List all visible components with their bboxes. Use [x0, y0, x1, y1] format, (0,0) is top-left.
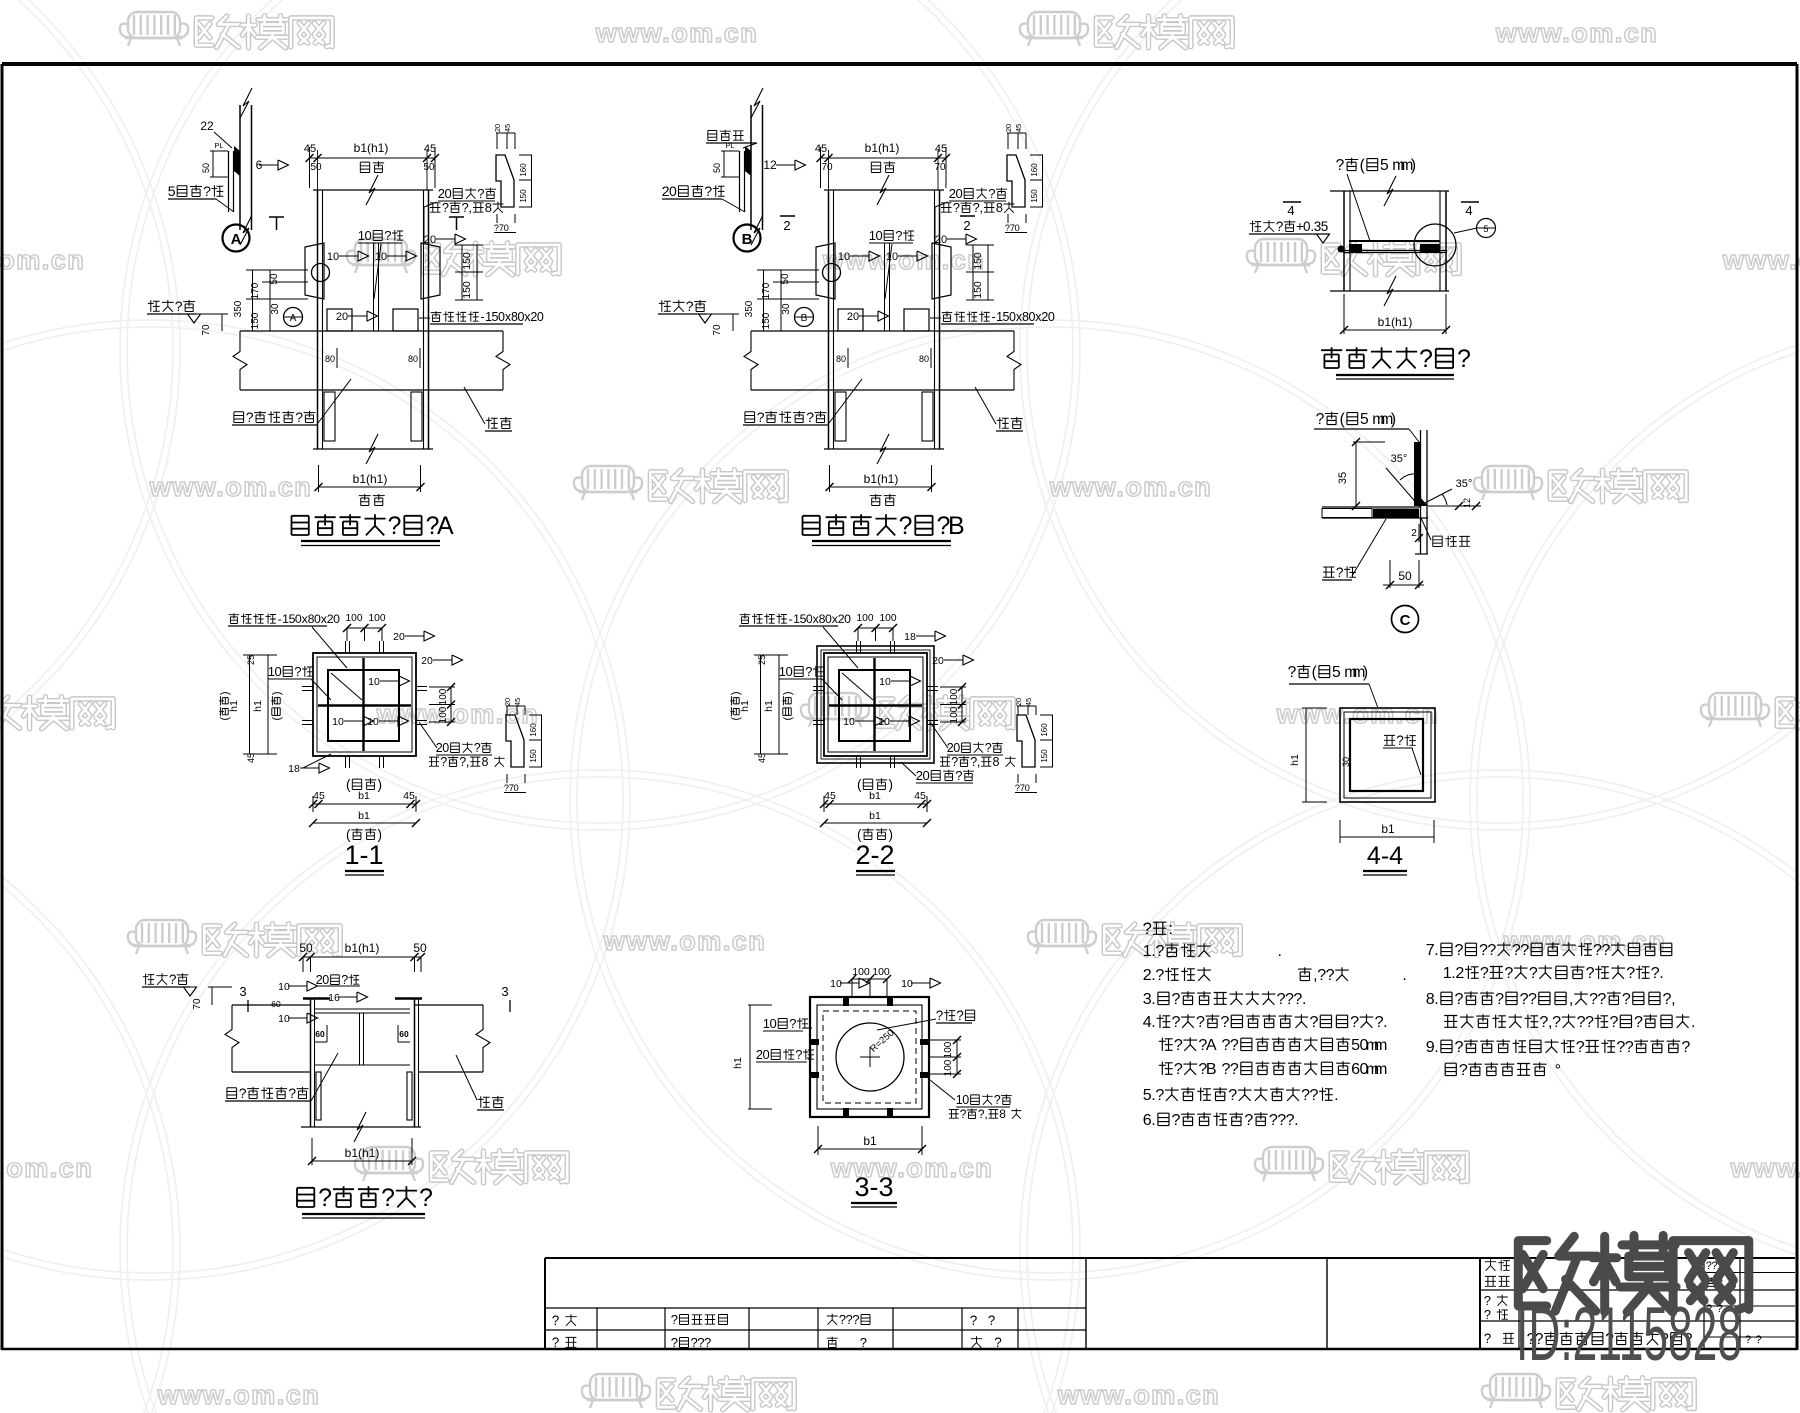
svg-text:80: 80 — [836, 354, 846, 364]
svg-text:?: ? — [956, 1008, 964, 1023]
svg-text:?: ? — [384, 228, 391, 243]
svg-text:h1: h1 — [739, 700, 751, 712]
svg-text:b1: b1 — [358, 810, 370, 822]
svg-text:A: A — [231, 231, 242, 248]
svg-text:?: ? — [1288, 664, 1297, 681]
svg-text:0: 0 — [769, 1016, 776, 1031]
svg-text:20: 20 — [336, 311, 348, 323]
svg-text:0: 0 — [955, 186, 962, 201]
svg-text:B: B — [948, 512, 965, 540]
svg-text:www.om.cn: www.om.cn — [157, 1380, 321, 1410]
svg-text:PL: PL — [214, 141, 223, 150]
svg-text:?: ? — [805, 664, 812, 679]
svg-text:?: ? — [1221, 1013, 1230, 1031]
svg-text:0: 0 — [922, 768, 929, 783]
svg-text:?: ? — [1504, 964, 1513, 982]
svg-text:8: 8 — [996, 200, 1003, 215]
svg-text:b1(h1): b1(h1) — [1378, 315, 1413, 329]
svg-text:150: 150 — [519, 189, 528, 203]
svg-text:?: ? — [1174, 1060, 1183, 1078]
svg-text:0: 0 — [1048, 310, 1055, 324]
svg-text:?: ? — [1172, 990, 1181, 1008]
svg-text:?: ? — [1552, 1013, 1561, 1031]
svg-text:8: 8 — [485, 200, 492, 215]
svg-text:20: 20 — [932, 655, 944, 667]
svg-text:?: ? — [288, 1085, 296, 1101]
svg-text:10: 10 — [367, 716, 379, 728]
svg-text:10: 10 — [332, 716, 344, 728]
svg-text:150: 150 — [1040, 749, 1049, 763]
svg-text:.: . — [1434, 941, 1438, 959]
svg-text:16: 16 — [328, 992, 340, 1004]
svg-text:50: 50 — [712, 163, 722, 173]
svg-text:100: 100 — [438, 706, 449, 723]
svg-text:,: , — [1569, 990, 1573, 1008]
svg-text:.: . — [1294, 1111, 1298, 1129]
svg-text:0: 0 — [953, 741, 960, 755]
svg-text:b1: b1 — [869, 790, 881, 802]
svg-text:b1: b1 — [869, 810, 881, 822]
svg-text:www.om.cn: www.om.cn — [603, 926, 767, 956]
svg-text:?: ? — [1172, 1111, 1181, 1129]
svg-text:70: 70 — [821, 162, 833, 173]
svg-text:.: . — [1151, 1013, 1155, 1031]
svg-text:?: ? — [1586, 964, 1595, 982]
svg-text:70: 70 — [934, 162, 946, 173]
svg-text:5: 5 — [1360, 411, 1369, 428]
svg-text:?: ? — [960, 1107, 967, 1121]
svg-text:(: ( — [730, 717, 742, 721]
svg-text:150: 150 — [1030, 189, 1039, 203]
svg-text:): ) — [271, 691, 283, 695]
svg-text:150: 150 — [972, 281, 984, 299]
svg-text:PL: PL — [725, 141, 734, 150]
svg-text:?: ? — [1396, 733, 1404, 748]
svg-text:(: ( — [346, 777, 351, 792]
svg-text:b1(h1): b1(h1) — [864, 472, 899, 486]
svg-text:100: 100 — [872, 966, 890, 978]
svg-text:100: 100 — [346, 613, 363, 624]
svg-text:10: 10 — [901, 978, 913, 990]
svg-text:?: ? — [1480, 964, 1489, 982]
svg-text:20: 20 — [503, 698, 512, 706]
svg-text:20: 20 — [1004, 124, 1013, 132]
svg-text:,: , — [977, 755, 980, 769]
svg-text:150: 150 — [972, 252, 984, 270]
svg-text:www.om.cn: www.om.cn — [1049, 472, 1213, 502]
svg-text:350: 350 — [233, 300, 244, 317]
svg-text:20: 20 — [847, 311, 859, 323]
svg-text:0: 0 — [762, 1047, 769, 1062]
svg-text:45: 45 — [513, 698, 522, 706]
svg-text:0: 0 — [504, 222, 509, 233]
svg-text:?: ? — [246, 409, 254, 425]
svg-text:?: ? — [852, 1312, 859, 1327]
svg-text:45: 45 — [246, 753, 256, 763]
svg-text:?: ? — [1455, 941, 1464, 959]
svg-text:.: . — [1434, 1038, 1438, 1056]
svg-text:?: ? — [169, 972, 177, 987]
svg-text:?: ? — [686, 298, 694, 314]
svg-text:?: ? — [951, 755, 958, 769]
svg-text:?: ? — [1602, 941, 1611, 959]
svg-text:?: ? — [388, 512, 402, 540]
svg-text:20: 20 — [1014, 698, 1023, 706]
svg-text:3-3: 3-3 — [854, 1172, 893, 1202]
svg-text:0: 0 — [1025, 782, 1030, 793]
svg-text:20: 20 — [935, 234, 947, 246]
svg-text:?: ? — [1143, 919, 1152, 938]
svg-text:8: 8 — [993, 755, 1000, 769]
svg-text:?: ? — [1276, 219, 1284, 234]
svg-text:?: ? — [704, 1335, 711, 1350]
svg-text:?: ? — [1597, 990, 1606, 1008]
svg-text:): ) — [782, 691, 794, 695]
svg-text::: : — [1168, 919, 1173, 938]
svg-text:(: ( — [1312, 664, 1318, 681]
svg-text:?: ? — [1155, 1086, 1164, 1104]
svg-text:0: 0 — [875, 228, 882, 243]
svg-text:150: 150 — [761, 312, 772, 329]
svg-text:45: 45 — [824, 790, 836, 802]
svg-text:1-1: 1-1 — [344, 840, 383, 870]
svg-text:10: 10 — [830, 978, 842, 990]
svg-text:?: ? — [1528, 990, 1537, 1008]
svg-text:35°: 35° — [1456, 478, 1473, 490]
svg-text:A: A — [290, 313, 297, 324]
svg-text:C: C — [1400, 612, 1411, 629]
svg-text:?: ? — [552, 1313, 560, 1328]
svg-text:100: 100 — [369, 613, 386, 624]
svg-text:?: ? — [806, 409, 814, 425]
svg-text:?: ? — [175, 298, 183, 314]
svg-text:50: 50 — [780, 273, 791, 285]
svg-text:?: ? — [203, 183, 211, 199]
svg-text:20: 20 — [421, 655, 433, 667]
svg-text:45: 45 — [403, 790, 415, 802]
svg-text:150: 150 — [461, 252, 473, 270]
svg-text:,: , — [979, 200, 983, 215]
svg-text:100: 100 — [857, 613, 874, 624]
svg-text:5: 5 — [1483, 224, 1488, 234]
svg-text:?: ? — [994, 1093, 1001, 1107]
svg-text:170: 170 — [250, 282, 261, 299]
svg-text:b1(h1): b1(h1) — [353, 472, 388, 486]
svg-text:20: 20 — [493, 124, 502, 132]
svg-text:80: 80 — [325, 354, 335, 364]
svg-text:2: 2 — [1455, 964, 1464, 982]
svg-text:): ) — [377, 777, 382, 792]
svg-text:100: 100 — [943, 1041, 954, 1058]
svg-text:2: 2 — [963, 218, 970, 233]
svg-text:?: ? — [1230, 1036, 1239, 1054]
svg-text:?: ? — [704, 183, 712, 199]
svg-text:?: ? — [552, 1335, 560, 1350]
svg-text:45: 45 — [1014, 124, 1023, 132]
svg-text:?: ? — [936, 1008, 944, 1023]
svg-text:?: ? — [953, 200, 960, 215]
svg-text:?: ? — [789, 1016, 796, 1031]
svg-text:?: ? — [1316, 411, 1325, 428]
svg-text:www.om.cn: www.om.cn — [595, 18, 759, 48]
svg-text:0: 0 — [513, 782, 518, 793]
svg-text:.: . — [1151, 990, 1155, 1008]
svg-text:100: 100 — [949, 706, 960, 723]
svg-text:50: 50 — [201, 163, 211, 173]
svg-text:160: 160 — [529, 723, 538, 737]
svg-text:(: ( — [219, 717, 231, 721]
svg-text:?: ? — [994, 1335, 1002, 1350]
svg-text:h1: h1 — [228, 700, 240, 712]
svg-text:m: m — [1374, 1036, 1387, 1054]
svg-text:?: ? — [1755, 1334, 1761, 1346]
svg-text:b1(h1): b1(h1) — [865, 141, 900, 155]
svg-text:35°: 35° — [1391, 453, 1408, 465]
svg-text:?: ? — [1625, 1038, 1634, 1056]
svg-text:): ) — [1363, 664, 1368, 681]
svg-text:?: ? — [1520, 941, 1529, 959]
svg-text:?: ? — [1172, 1013, 1181, 1031]
svg-text:45: 45 — [935, 143, 947, 155]
svg-text:25: 25 — [757, 655, 767, 665]
svg-text:,: , — [466, 755, 469, 769]
svg-text:?: ? — [860, 1335, 867, 1350]
svg-text:18: 18 — [904, 631, 916, 643]
svg-text:?: ? — [1457, 345, 1471, 373]
svg-text:30: 30 — [1341, 757, 1351, 767]
svg-text:?: ? — [1230, 1060, 1239, 1078]
svg-text:0: 0 — [274, 664, 281, 679]
svg-text:?: ? — [1155, 966, 1164, 984]
svg-text:?: ? — [1350, 1013, 1359, 1031]
svg-text:10: 10 — [278, 1013, 290, 1025]
svg-text:B: B — [742, 231, 753, 248]
svg-text:?: ? — [988, 186, 995, 201]
svg-text:?: ? — [1484, 1307, 1491, 1322]
svg-text:?: ? — [1326, 966, 1335, 984]
svg-text:4-4: 4-4 — [1367, 842, 1403, 870]
svg-text:.: . — [1151, 1111, 1155, 1129]
svg-text:0: 0 — [333, 612, 340, 626]
svg-text:b1: b1 — [1381, 822, 1395, 836]
svg-text:?: ? — [295, 409, 303, 425]
svg-text:?: ? — [1576, 1038, 1585, 1056]
svg-text:150: 150 — [250, 312, 261, 329]
svg-text:°: ° — [1555, 1061, 1561, 1079]
svg-text:www.om.cn: www.om.cn — [1057, 1380, 1221, 1410]
svg-text:B: B — [801, 313, 808, 324]
svg-text:100: 100 — [880, 613, 897, 624]
svg-text:4: 4 — [1287, 203, 1294, 218]
svg-text:70: 70 — [712, 324, 723, 336]
svg-text:b1(h1): b1(h1) — [354, 141, 389, 155]
svg-text:?: ? — [1459, 1061, 1468, 1079]
svg-text:?: ? — [1244, 1111, 1253, 1129]
svg-text:?: ? — [419, 1184, 433, 1212]
svg-text:50: 50 — [1398, 569, 1412, 583]
svg-text:www.om.cn: www.om.cn — [1730, 1153, 1800, 1183]
svg-text:12: 12 — [763, 158, 777, 172]
svg-text:www.om.cn: www.om.cn — [0, 245, 85, 275]
svg-text:?: ? — [895, 228, 902, 243]
svg-text:18: 18 — [288, 763, 300, 775]
svg-text:(: ( — [271, 717, 283, 721]
svg-text:?: ? — [1336, 157, 1345, 174]
svg-text:25: 25 — [246, 655, 256, 665]
svg-text:?: ? — [294, 664, 301, 679]
svg-text:?: ? — [899, 512, 913, 540]
svg-text:(: ( — [1340, 411, 1346, 428]
svg-text:50: 50 — [423, 162, 435, 173]
svg-text:30: 30 — [270, 303, 281, 315]
svg-text:.: . — [1383, 1013, 1387, 1031]
svg-text:3: 3 — [239, 984, 246, 999]
svg-text:.: . — [1402, 966, 1406, 984]
svg-text:): ) — [730, 691, 742, 695]
svg-text:.: . — [1302, 990, 1306, 1008]
svg-text:?: ? — [1155, 942, 1164, 960]
svg-text:5: 5 — [1332, 664, 1341, 681]
svg-text:m: m — [1374, 1060, 1387, 1078]
svg-text:?: ? — [1174, 1036, 1183, 1054]
svg-text:5: 5 — [168, 183, 176, 199]
svg-text:?: ? — [1585, 1013, 1594, 1031]
svg-text:): ) — [1391, 411, 1396, 428]
svg-text:10: 10 — [886, 251, 898, 263]
svg-text:150: 150 — [529, 749, 538, 763]
svg-text:0: 0 — [962, 1093, 969, 1107]
svg-text:?: ? — [1228, 1086, 1237, 1104]
svg-text:100: 100 — [943, 1059, 954, 1076]
svg-text:?: ? — [1336, 564, 1344, 580]
svg-text:170: 170 — [761, 282, 772, 299]
svg-text:b1(h1): b1(h1) — [345, 1146, 380, 1160]
svg-text:www.om.cn: www.om.cn — [1495, 18, 1659, 48]
svg-text:?: ? — [988, 1313, 996, 1328]
svg-text:,: , — [1671, 990, 1675, 1008]
svg-text:0: 0 — [785, 664, 792, 679]
svg-text:?: ? — [1310, 1013, 1319, 1031]
svg-text:160: 160 — [1030, 163, 1039, 177]
svg-text:?: ? — [757, 409, 765, 425]
svg-text:3: 3 — [501, 984, 508, 999]
svg-text:(: ( — [857, 777, 862, 792]
svg-text:-: - — [992, 310, 996, 324]
svg-text:10: 10 — [327, 251, 339, 263]
svg-text:10: 10 — [878, 716, 890, 728]
svg-text:10: 10 — [375, 251, 387, 263]
svg-text:?: ? — [795, 1047, 802, 1062]
svg-text:.: . — [1659, 964, 1663, 982]
svg-text:b1: b1 — [863, 1134, 877, 1148]
svg-text:?: ? — [1310, 1086, 1319, 1104]
svg-text:?: ? — [1196, 1013, 1205, 1031]
svg-text:5: 5 — [1321, 219, 1329, 234]
svg-text:B: B — [1206, 1060, 1217, 1078]
svg-text:ID:2115828: ID:2115828 — [1516, 1292, 1742, 1377]
svg-text:,: , — [984, 1107, 987, 1121]
svg-text:45: 45 — [1024, 698, 1033, 706]
svg-text:0: 0 — [442, 741, 449, 755]
svg-text:?: ? — [381, 1184, 395, 1212]
svg-text:www.om.cn: www.om.cn — [0, 1153, 93, 1183]
svg-text:5: 5 — [1380, 157, 1389, 174]
svg-text:0: 0 — [322, 973, 329, 987]
svg-text:?: ? — [474, 741, 481, 755]
svg-text:?: ? — [1419, 345, 1433, 373]
svg-text:?: ? — [1610, 1013, 1619, 1031]
svg-text:100: 100 — [949, 688, 960, 705]
svg-text:h1: h1 — [732, 1057, 744, 1069]
svg-text:8: 8 — [999, 1107, 1006, 1121]
svg-text:-: - — [789, 612, 793, 626]
svg-text:10: 10 — [843, 716, 855, 728]
svg-text:2: 2 — [1411, 528, 1417, 539]
svg-text:?: ? — [477, 186, 484, 201]
svg-text:): ) — [888, 777, 893, 792]
svg-text:?: ? — [1455, 990, 1464, 1008]
svg-text:(: ( — [782, 717, 794, 721]
svg-text:.: . — [1691, 1013, 1695, 1031]
svg-text:8: 8 — [482, 755, 489, 769]
svg-text:-: - — [278, 612, 282, 626]
svg-text:?: ? — [1745, 1334, 1751, 1346]
svg-text:?: ? — [1634, 1013, 1643, 1031]
svg-text:): ) — [1411, 157, 1416, 174]
svg-text:.: . — [1434, 990, 1438, 1008]
svg-text:0: 0 — [537, 310, 544, 324]
svg-text:h1: h1 — [252, 700, 264, 712]
svg-text:www.om.cn: www.om.cn — [1722, 245, 1800, 275]
svg-text:?: ? — [1484, 1293, 1491, 1308]
svg-text:A: A — [1206, 1036, 1217, 1054]
svg-text:10: 10 — [838, 251, 850, 263]
svg-text:www.om.cn: www.om.cn — [1276, 699, 1440, 729]
svg-text:.: . — [1334, 1086, 1338, 1104]
svg-text:45: 45 — [503, 124, 512, 132]
svg-text:50: 50 — [269, 273, 280, 285]
svg-text:60: 60 — [399, 1029, 409, 1039]
svg-text:b1(h1): b1(h1) — [345, 941, 380, 955]
svg-text:80: 80 — [408, 354, 418, 364]
svg-text:22: 22 — [200, 119, 214, 133]
svg-text:0: 0 — [844, 612, 851, 626]
svg-text:150: 150 — [461, 281, 473, 299]
svg-text:0: 0 — [669, 183, 677, 199]
svg-text:100: 100 — [438, 688, 449, 705]
svg-text:160: 160 — [519, 163, 528, 177]
svg-text:?: ? — [671, 1312, 678, 1327]
svg-text:?: ? — [341, 973, 348, 987]
svg-text:2-2: 2-2 — [855, 840, 894, 870]
svg-text:45: 45 — [757, 753, 767, 763]
svg-text:h1: h1 — [1289, 754, 1301, 766]
svg-text:(: ( — [1360, 157, 1366, 174]
svg-text:10: 10 — [368, 676, 380, 688]
svg-text:350: 350 — [744, 300, 755, 317]
svg-text:70: 70 — [192, 998, 203, 1010]
svg-text:?: ? — [1622, 990, 1631, 1008]
svg-text:,: , — [468, 200, 472, 215]
svg-text:45: 45 — [914, 790, 926, 802]
svg-text:70: 70 — [201, 324, 212, 336]
svg-text:50: 50 — [413, 941, 427, 955]
svg-text:?: ? — [1626, 964, 1635, 982]
svg-text:-: - — [481, 310, 485, 324]
svg-text:60: 60 — [271, 999, 281, 1009]
svg-text:0: 0 — [444, 186, 451, 201]
svg-text:60: 60 — [315, 1029, 325, 1039]
